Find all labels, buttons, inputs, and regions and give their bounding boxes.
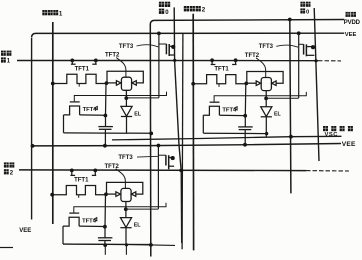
transistor TFT3 (pixel 2) channel bar (305, 44, 307, 56)
EL diode (pixel 2) cathode lead (265, 117, 267, 138)
wire loop over TFT2 (pixel 1) (107, 71, 143, 83)
transistor TFT2 (pixel 1) right contact arrow (132, 81, 136, 86)
transistor TFT2 (pixel 2) gate lead curve (256, 58, 266, 78)
transistor TFT2 (pixel 2) right contact arrow (272, 81, 276, 86)
capacitor C (pixel 2) plates (238, 126, 253, 128)
transistor TFT4 (pixel 1) gate lead elbow (74, 92, 166, 102)
data line 2 column (net 数据线2) (192, 14, 194, 251)
node A column wire down (pixel 3) (104, 194, 107, 226)
wire TFT4 source / cathode run (pixel 2) (203, 132, 266, 134)
label 选通线2 (select line 2) (4, 162, 9, 167)
wire loop over TFT2 (pixel 3) (107, 182, 143, 194)
junction dot bottom rail / left power column (149, 243, 153, 247)
junction dot TFT2 bottom node (pixel 1) (124, 96, 128, 100)
transistor TFT1 (pixel 2) gate bar (211, 64, 216, 66)
capacitor C (pixel 3) top lead (104, 227, 106, 238)
svg-text:EL: EL (134, 111, 142, 117)
svg-text:VEE: VEE (342, 141, 356, 148)
transistor TFT4 (pixel 1) drain wire (80, 114, 105, 116)
transistor TFT2 (pixel 3) bottom lead (125, 202, 127, 210)
capacitor C (pixel 2) bottom lead (244, 130, 246, 146)
wire TFT2 bottom node to gate column (pixel 1) (126, 97, 159, 99)
transistor TFT2 (pixel 1) left contact arrow (116, 81, 121, 86)
figure edge mark bottom left (0, 247, 13, 249)
svg-text:VSC: VSC (325, 132, 339, 138)
svg-text:TFT2: TFT2 (245, 53, 260, 59)
svg-text:1: 1 (7, 59, 11, 65)
transistor TFT1 (pixel 1) gate bar (71, 63, 76, 65)
svg-text:PVDD: PVDD (344, 20, 361, 26)
svg-text:TFT3: TFT3 (259, 44, 274, 50)
EL diode (pixel 3) cathode lead (125, 228, 127, 245)
label 选通线0 right (select line 0, col 2) (300, 2, 305, 7)
select line 1 dashed continuation (318, 60, 341, 62)
transistor TFT1 (pixel 3) mid-channel tick (78, 195, 80, 198)
label TFT3 pointer line (pixel 3) (137, 155, 158, 158)
wire TFT4 source / cathode run (pixel 1) (64, 132, 152, 134)
junction dot TFT4 drain node (pixel 1) (104, 114, 108, 118)
capacitor C (pixel 2) top lead (244, 116, 246, 127)
transistor TFT3 (pixel 2) bottom stub (306, 54, 314, 56)
transistor TFT4 (pixel 3) gate lead elbow (74, 203, 166, 213)
transistor TFT3 (pixel 2) gate bar (303, 44, 305, 54)
svg-text:TFT2: TFT2 (105, 164, 120, 170)
right cell border column (181, 34, 184, 250)
svg-text:EL: EL (134, 223, 142, 229)
transistor TFT3 (pixel 2) drain column (298, 33, 300, 98)
EL diode (pixel 3) cathode bar (120, 227, 131, 229)
junction dot TFT4 drain node (pixel 3) (103, 225, 107, 229)
junction dot VEE rail / TFT3 column (pixel 1) (157, 32, 161, 36)
select-0 column left (net 选通线0) (174, 7, 182, 243)
row2 bottom rail wire (63, 244, 175, 246)
transistor TFT4 (pixel 3) source drop (62, 226, 64, 244)
label 阴极电源 (cathode supply) (323, 126, 328, 131)
transistor TFT3 (pixel 1) top stub (169, 45, 174, 47)
transistor TFT1 (pixel 3) gate stub dots on select line (70, 169, 74, 173)
junction dot PVDD / right pixel power column (288, 18, 292, 22)
left power column (from PVDD rail) (149, 24, 152, 257)
left cell border column (31, 38, 33, 220)
junction dot select-0 column / select line 2 (179, 169, 182, 172)
junction dot data line / TFT1 source (pixel 2) (191, 82, 195, 86)
select line 1 (net 选通线1) (17, 60, 318, 62)
label 电源 (power) (346, 12, 351, 17)
transistor TFT2 (pixel 1) gate lead curve (116, 58, 126, 78)
wire node A to TFT2 left contact (pixel 1) (107, 82, 117, 84)
transistor TFT3 (pixel 3) channel bar (168, 155, 170, 169)
EL diode (pixel 2) triangle (261, 107, 272, 117)
label TFT4 pointer mark (pixel 3) (94, 218, 97, 221)
row2 rail VEE (net VEE) (32, 144, 341, 146)
label 选通线1 (select line 1) (1, 51, 6, 56)
transistor TFT1 (pixel 2) gate stub dots on select line (210, 58, 214, 62)
svg-text:TFT1: TFT1 (74, 178, 89, 184)
wire node A to TFT2 left contact (pixel 3) (106, 193, 116, 195)
transistor TFT1 (pixel 1) gate stubs (71, 60, 73, 64)
EL diode (pixel 1) cathode lead (126, 117, 128, 134)
transistor TFT2 (pixel 1) channel box (121, 77, 131, 90)
EL diode (pixel 1) anode lead (125, 98, 127, 106)
transistor TFT3 (pixel 3) lead elbow (158, 154, 166, 156)
transistor TFT2 (pixel 3) gate lead curve (116, 169, 126, 189)
junction dot cathode wire / left power column (pixel 1) (149, 132, 153, 136)
label TFT3 pointer curve (pixel 2) (276, 45, 298, 47)
wire loop over TFT2 (pixel 2) (247, 72, 283, 84)
wire TFT2 bottom node to gate column (pixel 2) (266, 97, 299, 99)
transistor TFT1 (pixel 2) mid-channel tick (218, 84, 220, 87)
transistor TFT1 (pixel 1) mid-channel tick (78, 84, 80, 87)
label TFT3 pointer curve (pixel 1) (137, 45, 159, 47)
junction dot right border column / select line 2 (180, 169, 183, 172)
transistor TFT3 (pixel 1) lead elbow (159, 43, 167, 45)
transistor TFT4 (pixel 3) gate bar (69, 212, 79, 214)
capacitor C (pixel 1) plates (98, 126, 113, 128)
node A dot TFT1 drain (pixel 3) (104, 192, 108, 196)
transistor TFT3 (pixel 1) gate bar (165, 44, 167, 54)
node A column wire down (pixel 1) (105, 83, 108, 115)
transistor TFT2 (pixel 2) left contact arrow (256, 81, 261, 86)
transistor TFT4 (pixel 3) drain wire (79, 225, 104, 227)
label TFT4 pointer mark (pixel 1) (94, 106, 97, 109)
wire TFT2 bottom node to gate column (pixel 3) (126, 208, 159, 210)
junction dot VEE2 / left capacitor column (103, 144, 107, 148)
transistor TFT2 (pixel 3) left contact arrow (116, 192, 121, 197)
junction dot cathode rail / right power column (289, 135, 293, 139)
svg-text:2: 2 (10, 170, 14, 176)
right power column (from PVDD rail) (290, 20, 291, 194)
junction dot VEE2 / right capacitor column (243, 143, 247, 147)
transistor TFT1 (pixel 1) dual-gate channel (53, 74, 107, 83)
transistor TFT4 (pixel 2) channel hump (203, 106, 219, 115)
EL diode (pixel 1) cathode bar (121, 116, 132, 118)
label 选通线0 (select line 0) (159, 2, 164, 7)
transistor TFT3 (pixel 3) bottom stub (169, 165, 174, 167)
transistor TFT3 (pixel 2) top stub (306, 46, 314, 48)
transistor TFT4 (pixel 1) source drop (63, 115, 65, 133)
junction dot VEE2 / left border column (31, 144, 35, 148)
svg-text:VEE: VEE (345, 32, 357, 38)
junction dot TFT3 stub / select-0 column (pixel 1) (171, 45, 175, 49)
svg-text:TFT2: TFT2 (105, 53, 120, 59)
EL diode (pixel 3) triangle (120, 218, 131, 228)
stub below row2 EL diode column (125, 245, 127, 255)
transistor TFT3 (pixel 1) bottom stub (169, 54, 174, 56)
wire TFT4 source / cathode run (pixel 3) (63, 243, 151, 245)
select line 2 dashed continuation (306, 170, 349, 172)
transistor TFT1 (pixel 3) dual-gate channel (52, 186, 106, 195)
svg-text:2: 2 (202, 7, 206, 14)
transistor TFT4 (pixel 2) gate lead elbow (214, 92, 306, 102)
svg-text:1: 1 (59, 11, 63, 18)
transistor TFT4 (pixel 2) drain wire (219, 114, 244, 116)
label 数据线2 (data line 2) (184, 6, 189, 11)
transistor TFT4 (pixel 3) channel hump (63, 217, 79, 226)
EL diode (pixel 3) anode lead (125, 209, 127, 217)
transistor TFT1 (pixel 1) gate stub dots on select line (70, 59, 74, 63)
svg-text:0: 0 (306, 10, 309, 16)
svg-text:TFT1: TFT1 (75, 66, 90, 72)
capacitor C (pixel 3) bottom lead (104, 241, 106, 245)
transistor TFT1 (pixel 3) gate bar (70, 174, 75, 176)
power rail VEE top (net VEE) (32, 33, 345, 37)
junction dot VEE rail / TFT3 column (pixel 3) (157, 144, 161, 148)
transistor TFT4 (pixel 1) gate bar (70, 101, 80, 103)
transistor TFT2 (pixel 3) channel box (121, 188, 131, 201)
transistor TFT1 (pixel 2) gate stubs (211, 60, 213, 64)
svg-text:TFT3: TFT3 (119, 44, 134, 50)
transistor TFT1 (pixel 2) dual-gate channel (193, 75, 246, 84)
label 数据线1 (data line 1) (42, 10, 47, 15)
junction dot right select-0 column / select line 1 (314, 59, 317, 62)
EL diode (pixel 1) triangle (121, 106, 132, 116)
junction dot TFT2 bottom node (pixel 2) (264, 97, 268, 101)
svg-text:EL: EL (274, 112, 282, 118)
wire node A to TFT2 left contact (pixel 2) (246, 82, 256, 84)
transistor TFT2 (pixel 2) bottom lead (265, 91, 267, 99)
transistor TFT1 (pixel 3) gate stubs (71, 170, 73, 175)
junction dot TFT3 stub / select-0 column (pixel 3) (171, 156, 175, 160)
junction dot TFT4 drain node (pixel 2) (243, 114, 247, 118)
transistor TFT3 (pixel 2) lead elbow (299, 43, 304, 45)
junction dot VEE rail / TFT3 column (pixel 2) (297, 31, 301, 35)
junction dot TFT2 bottom node (pixel 3) (124, 207, 128, 211)
svg-text:0: 0 (165, 10, 169, 16)
junction dot data line / TFT1 source (pixel 3) (50, 193, 54, 197)
svg-text:TFT3: TFT3 (118, 155, 133, 161)
transistor TFT3 (pixel 3) gate bar (165, 155, 167, 165)
capacitor C (pixel 1) bottom lead (104, 129, 106, 146)
data line 1 column (net 数据线1) (52, 22, 54, 224)
node A column wire down (pixel 2) (244, 83, 247, 115)
junction dot bottom rail / row2 capacitor column (103, 243, 107, 247)
transistor TFT4 (pixel 2) gate bar (210, 101, 220, 103)
label TFT4 pointer mark (pixel 2) (234, 107, 237, 110)
transistor TFT3 (pixel 1) channel bar (168, 44, 170, 56)
transistor TFT2 (pixel 1) bottom lead (125, 90, 127, 98)
junction dot row2 EL diode cathode / bottom rail (125, 243, 128, 246)
node A dot TFT1 drain (pixel 1) (105, 81, 109, 85)
svg-text:VEE: VEE (19, 228, 31, 234)
junction dot data line / TFT1 source (pixel 1) (51, 82, 55, 86)
transistor TFT2 (pixel 3) right contact arrow (131, 192, 135, 197)
EL diode (pixel 2) anode lead (265, 99, 267, 107)
transistor TFT4 (pixel 2) source drop (202, 115, 204, 133)
node A dot TFT1 drain (pixel 2) (244, 82, 248, 86)
EL diode (pixel 2) cathode bar (261, 116, 272, 118)
svg-text:TFT1: TFT1 (214, 67, 229, 73)
junction dot TFT3 stub / select-0 column (pixel 2) (311, 45, 315, 49)
junction dot right EL diode cathode / TFT4 wire (265, 132, 268, 135)
select-0 column right (314, 8, 319, 161)
transistor TFT2 (pixel 2) channel box (261, 78, 271, 91)
stub below row2 capacitor column (104, 245, 106, 255)
transistor TFT4 (pixel 1) channel hump (64, 106, 80, 115)
capacitor C (pixel 1) top lead (105, 116, 107, 127)
capacitor C (pixel 3) plates (98, 237, 113, 239)
transistor TFT3 (pixel 1) drain column (158, 33, 160, 97)
cathode supply rail (net VSC) (112, 136, 342, 140)
junction dot select-0 column / select line 1 (173, 59, 176, 62)
select line 2 (net 选通线2) (19, 169, 306, 172)
transistor TFT3 (pixel 3) top stub (169, 157, 174, 159)
transistor TFT3 (pixel 3) drain column (157, 146, 159, 209)
power rail PVDD (net PVDD) (150, 20, 344, 25)
